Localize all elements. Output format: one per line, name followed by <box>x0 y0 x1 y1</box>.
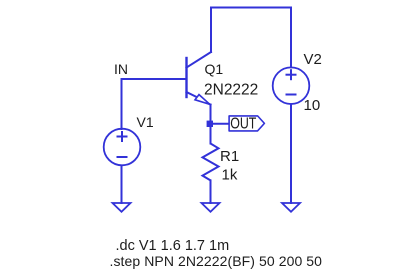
wire base (IN to Q1) <box>122 78 187 80</box>
wire V2 top vertical <box>290 8 292 68</box>
svg-text:1k: 1k <box>222 167 238 184</box>
transistor Q1 <box>187 52 212 105</box>
svg-text:.step NPN 2N2222(BF) 50 200 50: .step NPN 2N2222(BF) 50 200 50 <box>110 253 323 269</box>
resistor R1 <box>203 144 219 181</box>
wire V2 bottom to ground <box>290 104 292 203</box>
svg-text:10: 10 <box>304 97 321 114</box>
port flag OUT <box>229 116 264 133</box>
ground (V2) <box>282 203 300 212</box>
wire top (collector to V2) <box>211 7 291 9</box>
svg-text:2N2222: 2N2222 <box>204 82 258 99</box>
svg-text:V1: V1 <box>137 114 154 130</box>
svg-text:V2: V2 <box>304 51 322 68</box>
voltage source V1 <box>104 129 141 166</box>
node OUT junction square <box>207 121 213 127</box>
ground (R1) <box>202 203 220 212</box>
svg-text:IN: IN <box>114 61 128 77</box>
wire V1 bottom to ground <box>121 166 123 204</box>
wire emitter vertical (node to R1) <box>210 105 212 144</box>
wire collector vertical <box>210 8 212 53</box>
ground (V1) <box>113 203 131 212</box>
svg-text:R1: R1 <box>220 148 239 165</box>
wire IN vertical to V1 <box>121 79 123 129</box>
wire node to OUT flag <box>213 123 229 125</box>
wire R1 bottom to ground <box>210 180 212 203</box>
svg-text:Q1: Q1 <box>205 61 224 77</box>
svg-text:.dc V1 1.6 1.7 1m: .dc V1 1.6 1.7 1m <box>116 238 230 254</box>
svg-text:OUT: OUT <box>230 116 256 133</box>
voltage source V2 <box>273 67 310 104</box>
